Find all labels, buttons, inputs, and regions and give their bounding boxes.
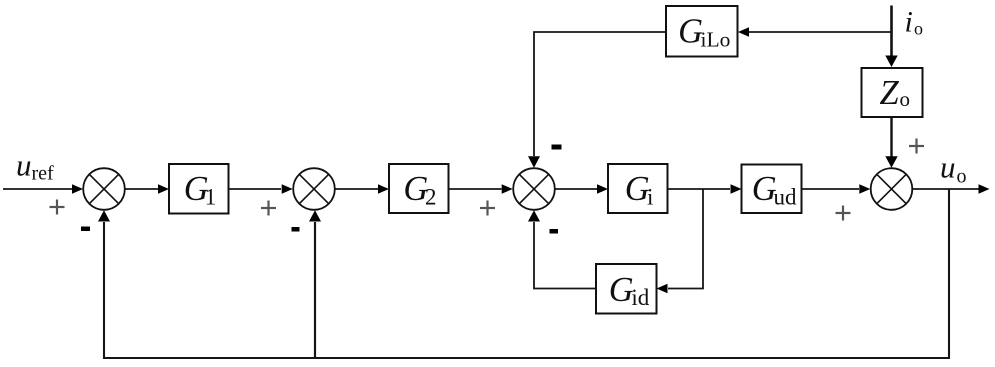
wire i_o branch to GiLo bbox=[738, 27, 892, 36]
wire feedback from output down, across bottom, up to S1 bbox=[98, 189, 949, 358]
plus sign left of S4 bbox=[836, 206, 851, 221]
svg-text:iLo: iLo bbox=[701, 28, 731, 52]
wire G2 to S3 bbox=[449, 184, 513, 193]
wire Zo down to S4 bbox=[885, 117, 897, 168]
plus sign at S3 bbox=[480, 201, 495, 216]
label u_o bbox=[940, 150, 967, 188]
summing junction S3 bbox=[513, 168, 555, 210]
wire GiLo to S3 (left then down) bbox=[528, 32, 667, 168]
svg-text:o: o bbox=[957, 166, 967, 188]
svg-text:o: o bbox=[900, 87, 911, 111]
wire feedback branch up to S2 bbox=[309, 210, 321, 358]
wire Gi to Gud bbox=[668, 184, 742, 193]
svg-text:id: id bbox=[631, 285, 649, 310]
block G2 bbox=[389, 164, 449, 213]
svg-text:i: i bbox=[905, 6, 913, 39]
svg-text:ud: ud bbox=[774, 185, 798, 210]
wire i_o input down to Zo bbox=[885, 6, 897, 68]
minus sign below S1 bbox=[81, 227, 90, 232]
wire input u_ref to S1 bbox=[3, 184, 83, 193]
block Gud bbox=[742, 165, 802, 214]
minus sign below S2 bbox=[292, 227, 300, 232]
summing junction S1 bbox=[83, 168, 125, 210]
wire G1 to S2 bbox=[229, 184, 293, 193]
summing junction S4 bbox=[871, 168, 913, 210]
wire Gid to S3 (left then up) bbox=[528, 210, 596, 288]
wire S2 to G2 bbox=[335, 184, 389, 193]
plus sign at S2 bbox=[261, 201, 276, 216]
wire tap after Gi down to Gid bbox=[657, 189, 704, 293]
svg-text:o: o bbox=[914, 19, 923, 39]
svg-text:G: G bbox=[678, 13, 703, 51]
block GiLo bbox=[666, 6, 738, 57]
block Gi bbox=[608, 164, 668, 213]
plus sign at S1 bbox=[50, 200, 65, 215]
plus sign right of Zo arrow bbox=[909, 139, 924, 154]
wire Gud to S4 bbox=[802, 184, 871, 193]
block Gid bbox=[596, 264, 657, 314]
block G1 bbox=[169, 164, 229, 214]
svg-text:ref: ref bbox=[32, 163, 55, 185]
label u_ref bbox=[16, 148, 54, 185]
wire S4 to output u_o bbox=[913, 184, 990, 193]
svg-text:i: i bbox=[647, 185, 653, 210]
minus sign below S3 bbox=[550, 229, 559, 234]
svg-text:2: 2 bbox=[425, 185, 437, 210]
block Zo bbox=[862, 68, 923, 117]
minus sign above S3 bbox=[552, 145, 562, 150]
wire S3 to Gi bbox=[555, 184, 608, 193]
svg-text:Z: Z bbox=[880, 74, 900, 112]
svg-text:1: 1 bbox=[205, 185, 217, 210]
summing junction S2 bbox=[293, 168, 335, 210]
svg-text:G: G bbox=[609, 271, 634, 309]
svg-text:u: u bbox=[16, 148, 32, 183]
label i_o bbox=[905, 6, 924, 39]
svg-text:u: u bbox=[940, 150, 956, 185]
wire S1 to G1 bbox=[125, 184, 169, 193]
